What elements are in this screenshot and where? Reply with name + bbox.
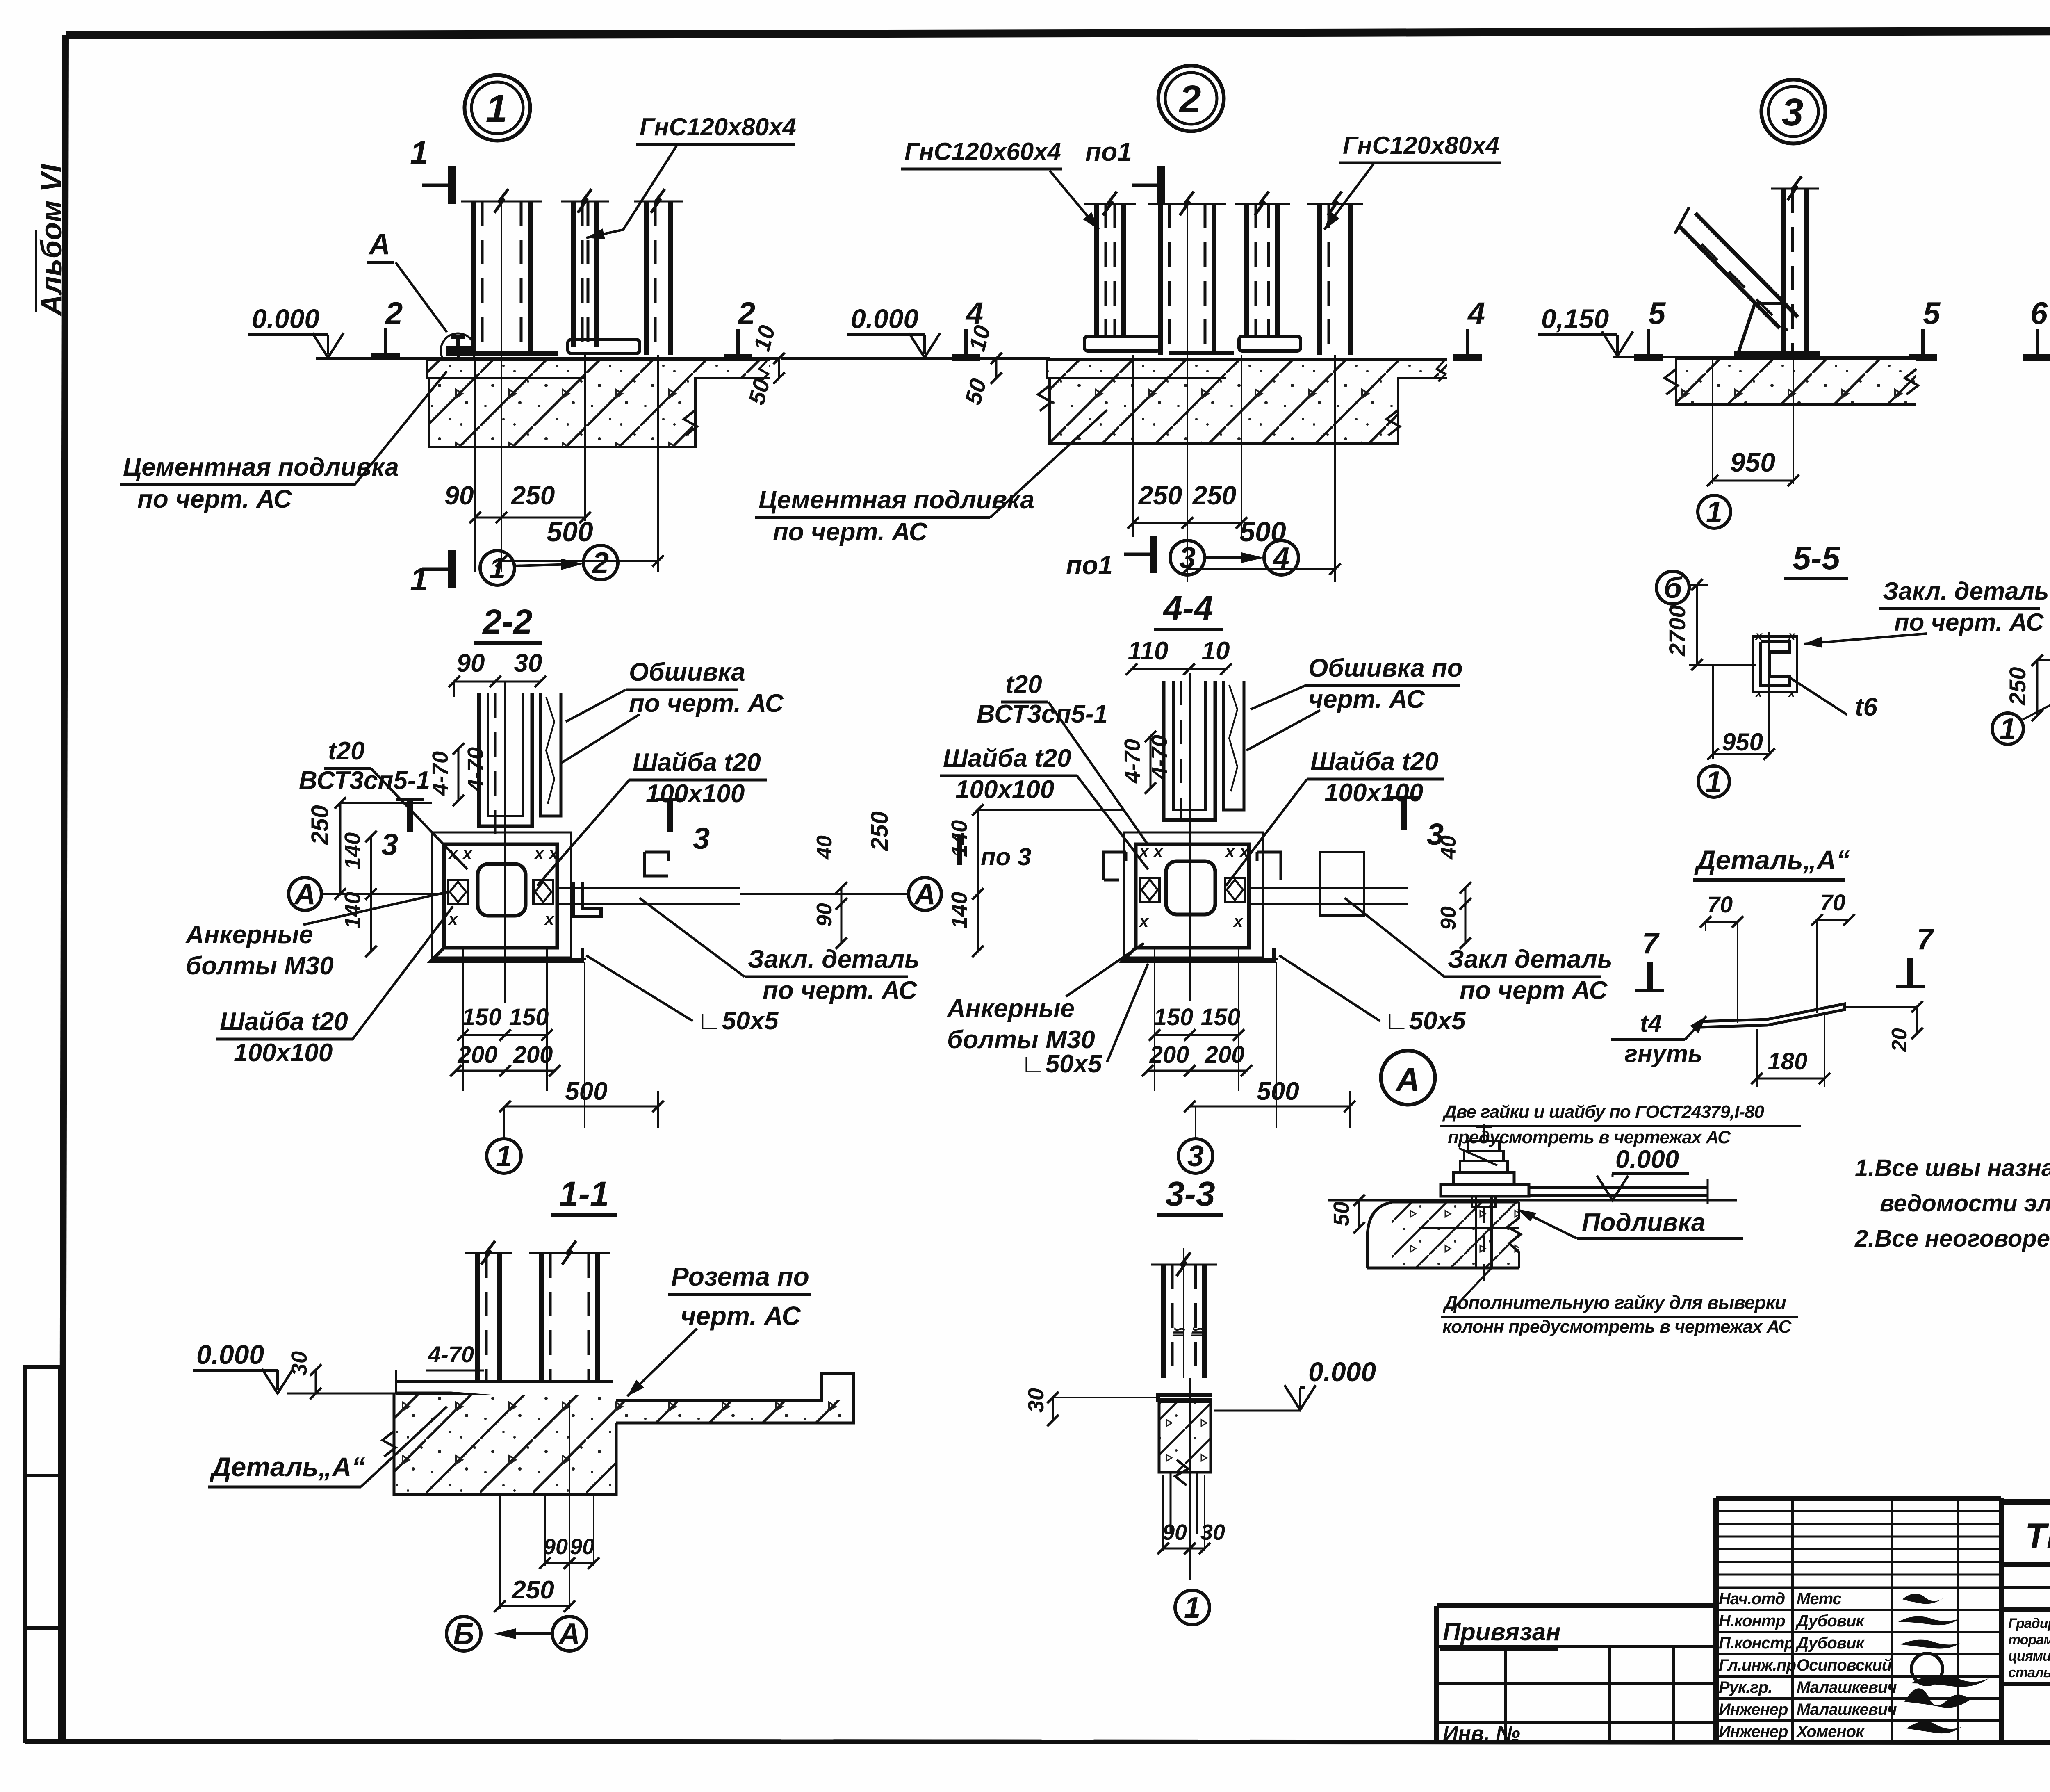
svg-text:x: x — [448, 845, 458, 863]
svg-text:Осиповский: Осиповский — [1797, 1656, 1892, 1674]
svg-text:x: x — [1233, 912, 1244, 930]
svg-text:Деталь„А“: Деталь„А“ — [1694, 845, 1850, 875]
svg-text:110: 110 — [1128, 637, 1168, 665]
2-2 column stub channel — [479, 693, 532, 826]
svg-text:x: x — [1153, 843, 1164, 861]
svg-text:болты М30: болты М30 — [186, 952, 334, 980]
svg-text:x: x — [1139, 912, 1149, 930]
svg-text:250: 250 — [866, 811, 893, 851]
svg-text:Н.контр: Н.контр — [1719, 1612, 1785, 1630]
5-5 embedded square — [1753, 636, 1797, 692]
ground line bolt detail — [1328, 1199, 1737, 1202]
svg-text:180: 180 — [1768, 1048, 1808, 1075]
1-1 zigzag on foundation left — [383, 1431, 396, 1457]
svg-text:Розета по: Розета по — [671, 1262, 809, 1291]
svg-text:стальным каркасом: стальным каркасом — [2008, 1665, 2050, 1680]
svg-text:Закл. деталь: Закл. деталь — [1883, 577, 2049, 605]
svg-text:3-3: 3-3 — [1165, 1174, 1215, 1213]
grid marks 3 4 node 2 — [1170, 540, 1205, 575]
svg-text:4-70: 4-70 — [1147, 735, 1172, 780]
svg-text:t6: t6 — [1855, 693, 1878, 721]
svg-text:x: x — [1139, 843, 1149, 861]
svg-text:70: 70 — [1820, 889, 1845, 915]
svg-text:4: 4 — [1272, 542, 1289, 575]
node 2 detail group — [743, 66, 1501, 582]
grid mark 1 3-3 — [1175, 1590, 1209, 1625]
node 2 base plates — [1084, 336, 1160, 351]
svg-text:90: 90 — [457, 649, 485, 677]
svg-text:ТП 901-6 - 93 с.86: ТП 901-6 - 93 с.86 — [2025, 1516, 2050, 1556]
svg-text:по черт. АС: по черт. АС — [629, 689, 784, 718]
svg-text:предусмотреть в чертежах АС: предусмотреть в чертежах АС — [1448, 1127, 1731, 1147]
4-4 wing plates bottom — [1122, 948, 1274, 962]
plate strip right of bolt — [1529, 1186, 1708, 1189]
grid mark 3 below 4-4 — [1178, 1139, 1213, 1173]
svg-text:4-70: 4-70 — [428, 1341, 474, 1367]
3-3 small plate — [1156, 1393, 1212, 1397]
svg-text:3: 3 — [1187, 1140, 1204, 1173]
svg-text:1: 1 — [410, 561, 428, 597]
svg-text:по черт АС: по черт АС — [1460, 976, 1608, 1005]
svg-text:200: 200 — [1205, 1042, 1245, 1068]
svg-text:5: 5 — [1648, 296, 1666, 331]
svg-text:Обшивка: Обшивка — [629, 658, 745, 686]
2-2 c-clip top right — [645, 852, 668, 876]
svg-text:торами 2ВГ 70 капельная с сек-: торами 2ВГ 70 капельная с сек- — [2008, 1632, 2050, 1648]
svg-text:7: 7 — [1917, 923, 1934, 956]
4-4 bottom dims — [1154, 948, 1155, 1091]
svg-text:по черт. АС: по черт. АС — [763, 976, 918, 1005]
svg-text:20: 20 — [1888, 1028, 1911, 1052]
svg-text:1: 1 — [1184, 1591, 1200, 1624]
node 2 ground line — [781, 357, 1050, 360]
svg-text:Две гайки и шайбу по ГОСТ24379: Две гайки и шайбу по ГОСТ24379,I-80 — [1442, 1102, 1765, 1122]
svg-text:0.000: 0.000 — [1615, 1145, 1679, 1174]
svg-text:∟50х5: ∟50х5 — [697, 1007, 779, 1035]
svg-text:Дубовик: Дубовик — [1795, 1612, 1865, 1630]
svg-text:200: 200 — [513, 1042, 553, 1068]
svg-text:≌: ≌ — [1171, 1323, 1185, 1341]
svg-text:∟50х5: ∟50х5 — [1384, 1007, 1466, 1035]
svg-text:2-2: 2-2 — [482, 602, 532, 641]
svg-text:Подливка: Подливка — [1582, 1208, 1705, 1237]
svg-text:Цементная подливка: Цементная подливка — [758, 486, 1034, 514]
svg-text:500: 500 — [547, 516, 593, 547]
dim 950 5-5 — [1712, 665, 1714, 759]
2-2 base plate outline dashed — [432, 832, 571, 958]
svg-text:А: А — [913, 878, 936, 911]
svg-text:150: 150 — [509, 1004, 549, 1031]
svg-text:6: 6 — [2030, 296, 2048, 331]
svg-text:Шайба t20: Шайба t20 — [633, 748, 761, 777]
grid marks B A 1-1 — [446, 1616, 481, 1651]
detail A group — [1611, 889, 1934, 1087]
svg-text:100х100: 100х100 — [1324, 779, 1423, 807]
2-2 tube section — [478, 864, 526, 916]
svg-text:2: 2 — [592, 547, 609, 579]
axis A left 2-2 — [289, 878, 321, 910]
node 3 column — [1781, 189, 1786, 353]
grid mark 6 5-5 — [1656, 571, 1689, 604]
svg-text:x: x — [1239, 843, 1250, 861]
svg-text:ГнС120х60х4: ГнС120х60х4 — [904, 138, 1061, 165]
svg-text:90: 90 — [1162, 1520, 1187, 1545]
svg-text:250: 250 — [2004, 667, 2030, 706]
svg-text:по1: по1 — [1085, 137, 1132, 166]
svg-text:по черт. АС: по черт. АС — [1894, 609, 2044, 636]
svg-text:А: А — [294, 878, 316, 911]
4-4 column stub channel — [1164, 681, 1215, 820]
svg-text:x: x — [534, 845, 544, 863]
svg-text:Малашкевич: Малашкевич — [1797, 1701, 1897, 1719]
node 3 bubble — [1761, 80, 1825, 144]
svg-text:1: 1 — [489, 552, 506, 585]
svg-text:0.000: 0.000 — [252, 303, 319, 334]
privyazan box — [1437, 1603, 1716, 1608]
svg-text:90: 90 — [444, 481, 474, 510]
svg-text:1: 1 — [410, 135, 428, 171]
grid mark 1 node 3 — [1698, 495, 1731, 528]
3-3 concrete pier — [1159, 1402, 1211, 1472]
svg-text:0.000: 0.000 — [851, 303, 918, 334]
node 1 columns — [471, 201, 476, 355]
svg-text:Альбом VI: Альбом VI — [35, 164, 68, 317]
signature scribbles — [1902, 1594, 1943, 1604]
svg-text:Шайба t20: Шайба t20 — [943, 744, 1071, 773]
svg-text:черт. АС: черт. АС — [681, 1301, 801, 1331]
svg-text:250: 250 — [511, 481, 555, 510]
node 1 bubble — [465, 75, 530, 141]
svg-text:40: 40 — [813, 835, 836, 860]
svg-text:950: 950 — [1730, 447, 1775, 477]
1-1 dim 250 — [499, 1494, 501, 1609]
2-2 siding channel right — [540, 693, 561, 816]
svg-text:140: 140 — [947, 892, 972, 929]
detail A bolt group — [1328, 1051, 1801, 1337]
2-2 embedded channel right — [573, 882, 601, 917]
svg-text:500: 500 — [1257, 1077, 1299, 1106]
1-1 big foundation — [394, 1395, 616, 1494]
svg-text:7: 7 — [1642, 927, 1660, 960]
svg-text:Цементная подливка: Цементная подливка — [123, 453, 399, 481]
svg-text:ВСТ3сп5-1: ВСТ3сп5-1 — [977, 700, 1108, 728]
svg-text:б: б — [1664, 572, 1683, 604]
svg-text:t20: t20 — [328, 737, 365, 765]
svg-text:4: 4 — [1467, 296, 1485, 331]
axis A right 2-2 — [909, 878, 941, 910]
3-3 dims 90 30 — [1162, 1475, 1164, 1551]
svg-text:Нач.отд: Нач.отд — [1719, 1590, 1785, 1608]
node 1 dim extension lines — [474, 358, 476, 572]
svg-text:Деталь„А“: Деталь„А“ — [210, 1452, 365, 1482]
node 3 inclined brace — [1680, 227, 1780, 328]
svg-text:по черт. АС: по черт. АС — [137, 485, 292, 513]
svg-text:1: 1 — [496, 1140, 512, 1173]
svg-text:1: 1 — [1706, 496, 1722, 529]
4-4 base plate outline dashed — [1124, 832, 1263, 958]
svg-text:1: 1 — [1706, 766, 1722, 798]
bolt concrete — [1392, 1202, 1519, 1268]
section 5-5 group — [1656, 540, 2049, 798]
section 4-4 group — [940, 589, 1613, 1215]
svg-text:Закл. деталь: Закл. деталь — [748, 945, 920, 974]
svg-text:Инв. №: Инв. № — [1443, 1722, 1520, 1746]
bolt stack — [1483, 1124, 1485, 1141]
node 2 dim extension lines — [1132, 355, 1134, 537]
4-4 base plate — [1136, 844, 1249, 948]
svg-text:90: 90 — [570, 1534, 594, 1559]
node 2 zigzag breaks — [1038, 385, 1051, 411]
svg-text:А: А — [1395, 1061, 1420, 1098]
svg-text:ведомости элементов, остальные: ведомости элементов, остальные kf4мм. — [1880, 1190, 2050, 1217]
svg-text:100х100: 100х100 — [234, 1039, 333, 1067]
svg-text:Инженер: Инженер — [1719, 1701, 1788, 1719]
svg-text:0.000: 0.000 — [1308, 1357, 1376, 1387]
section 6-6 group — [1992, 536, 2050, 822]
grid marks 1 2 node 1 — [480, 551, 515, 585]
grid mark 1 below 2-2 — [487, 1139, 521, 1173]
node 3 ground line — [1613, 356, 1916, 358]
bolt shank in concrete — [1475, 1196, 1477, 1268]
svg-text:140: 140 — [340, 892, 365, 929]
washer plate — [1441, 1185, 1529, 1196]
svg-text:30: 30 — [287, 1351, 312, 1376]
svg-text:250: 250 — [1192, 481, 1237, 510]
svg-text:А: А — [558, 1618, 580, 1651]
node 1 zigzag break — [684, 410, 697, 435]
node 1 left anchor washer — [448, 347, 475, 354]
svg-text:1-1: 1-1 — [559, 1174, 609, 1213]
svg-text:3: 3 — [381, 828, 398, 862]
node 2 bubble — [1158, 66, 1224, 131]
2-2 bottom dims — [462, 948, 464, 1091]
svg-text:4-4: 4-4 — [1162, 589, 1213, 627]
node 1 ground line — [316, 357, 779, 360]
svg-text:Анкерные: Анкерные — [946, 994, 1075, 1023]
svg-text:1: 1 — [2000, 713, 2016, 746]
section 1-1 group — [193, 1241, 854, 1651]
svg-text:Инженер: Инженер — [1719, 1723, 1788, 1741]
svg-text:30: 30 — [514, 649, 542, 677]
svg-text:гнуть: гнуть — [1624, 1040, 1703, 1067]
node 1 base plates — [568, 340, 640, 353]
section 2-2 group — [185, 602, 941, 1215]
svg-text:x: x — [1755, 629, 1763, 643]
title block signature rows — [1716, 1587, 2001, 1589]
svg-text:Малашкевич: Малашкевич — [1797, 1678, 1897, 1696]
svg-text:3: 3 — [1782, 91, 1804, 134]
svg-text:x: x — [1225, 843, 1235, 861]
svg-text:1: 1 — [486, 87, 508, 130]
svg-text:Хоменок: Хоменок — [1796, 1723, 1865, 1741]
1-1 columns — [475, 1253, 480, 1382]
svg-text:А: А — [368, 228, 390, 261]
svg-text:3: 3 — [693, 821, 710, 855]
svg-text:200: 200 — [458, 1042, 498, 1068]
4-4 siding channel right — [1223, 681, 1244, 810]
node 3 concrete — [1676, 358, 1916, 404]
svg-text:2: 2 — [1179, 78, 1201, 121]
svg-text:П.констр: П.констр — [1719, 1634, 1794, 1652]
svg-text:Метс: Метс — [1797, 1590, 1842, 1608]
4-4 anchor washers — [1140, 878, 1159, 902]
svg-text:Анкерные: Анкерные — [185, 921, 313, 949]
node 3 base line — [1734, 351, 1820, 356]
svg-text:10: 10 — [1202, 637, 1230, 665]
svg-text:Шайба t20: Шайба t20 — [1310, 748, 1439, 776]
svg-text:100х100: 100х100 — [646, 780, 745, 808]
svg-text:Закл деталь: Закл деталь — [1448, 945, 1613, 974]
svg-text:Рук.гр.: Рук.гр. — [1719, 1678, 1772, 1696]
title block right section — [2001, 1499, 2050, 1505]
svg-text:t20: t20 — [1005, 670, 1042, 699]
title block group — [1437, 1498, 2050, 1746]
svg-text:100х100: 100х100 — [955, 775, 1054, 804]
svg-text:50: 50 — [1329, 1202, 1354, 1226]
svg-text:40: 40 — [1437, 835, 1460, 860]
svg-text:70: 70 — [1707, 891, 1733, 917]
node 1 detail group — [120, 75, 796, 597]
svg-text:Дубовик: Дубовик — [1795, 1634, 1865, 1652]
svg-text:250: 250 — [307, 805, 333, 845]
svg-text:90: 90 — [1437, 906, 1460, 930]
svg-text:ГнС120х80х4: ГнС120х80х4 — [1343, 132, 1499, 159]
svg-text:Шайба t20: Шайба t20 — [220, 1008, 348, 1036]
svg-text:250: 250 — [511, 1576, 554, 1604]
svg-text:Гл.инж.пр: Гл.инж.пр — [1719, 1656, 1796, 1674]
1-1 floor slab right — [616, 1400, 854, 1423]
2-2 anchor washers — [448, 880, 468, 904]
svg-text:140: 140 — [947, 820, 972, 857]
detail A bubble — [1381, 1051, 1435, 1105]
title block outer borders — [1716, 1496, 2001, 1501]
svg-text:≌: ≌ — [1189, 1323, 1204, 1341]
svg-text:0.000: 0.000 — [196, 1339, 264, 1370]
svg-text:30: 30 — [1024, 1388, 1048, 1413]
4-4 tube section — [1166, 861, 1215, 914]
svg-text:x: x — [1788, 686, 1796, 700]
svg-text:x: x — [462, 845, 473, 863]
svg-text:по1: по1 — [1066, 550, 1113, 580]
svg-text:∟50х5: ∟50х5 — [1020, 1050, 1102, 1078]
svg-text:500: 500 — [565, 1077, 607, 1106]
svg-text:ГнС120х80х4: ГнС120х80х4 — [640, 113, 796, 141]
svg-text:x: x — [548, 845, 559, 863]
svg-text:0,150: 0,150 — [1541, 303, 1609, 334]
svg-text:90: 90 — [813, 903, 836, 927]
svg-text:2: 2 — [385, 296, 403, 331]
svg-text:2700: 2700 — [1664, 605, 1690, 657]
node 3 dim 950 — [1712, 357, 1713, 484]
svg-text:140: 140 — [340, 832, 365, 869]
svg-text:3: 3 — [1179, 542, 1196, 575]
node 2 concrete foundation — [1047, 360, 1447, 378]
grid mark 1 6-6 — [1992, 713, 2023, 744]
title block column lines — [1791, 1498, 1794, 1743]
svg-text:4-70: 4-70 — [428, 751, 453, 796]
left margin strip box — [25, 1367, 60, 1741]
svg-text:150: 150 — [462, 1004, 502, 1031]
3-3 column — [1161, 1265, 1166, 1378]
1-1 dims 90 90 — [544, 1494, 546, 1566]
svg-text:x: x — [1788, 629, 1796, 643]
svg-text:ВСТ3сп5-1: ВСТ3сп5-1 — [299, 766, 430, 795]
svg-text:250: 250 — [1138, 481, 1182, 510]
svg-text:200: 200 — [1149, 1042, 1189, 1068]
svg-text:Привязан: Привязан — [1443, 1618, 1560, 1646]
svg-text:150: 150 — [1154, 1004, 1194, 1031]
svg-text:1.Все швы назначать по усилиям: 1.Все швы назначать по усилиям, указанны… — [1855, 1155, 2050, 1181]
svg-text:Обшивка по: Обшивка по — [1308, 654, 1463, 682]
svg-text:2: 2 — [737, 296, 755, 331]
svg-text:Дополнительную гайку для вывер: Дополнительную гайку для выверки — [1442, 1292, 1786, 1313]
4-4 embedded channel right — [1320, 852, 1364, 916]
svg-text:циями площадью 192кв.м. со: циями площадью 192кв.м. со — [2008, 1648, 2050, 1664]
svg-text:черт. АС: черт. АС — [1308, 685, 1425, 714]
2-2 wing plate bottom — [430, 948, 582, 962]
3-3 bolt lines below — [1170, 1472, 1172, 1534]
4-4 c-clips left and right of plate — [1104, 852, 1126, 880]
svg-text:5-5: 5-5 — [1793, 540, 1840, 576]
general notes text — [1854, 1155, 2050, 1252]
svg-text:5: 5 — [1923, 296, 1941, 331]
svg-text:x: x — [544, 910, 555, 928]
svg-text:30: 30 — [1200, 1520, 1225, 1545]
grid mark 1 5-5 — [1698, 766, 1729, 797]
svg-text:Б: Б — [453, 1618, 474, 1651]
svg-text:t4: t4 — [1640, 1010, 1662, 1037]
svg-text:150: 150 — [1201, 1004, 1241, 1031]
1-1 rosette plate — [396, 1380, 613, 1383]
svg-text:Градирня 3 х секционная с вент: Градирня 3 х секционная с вентиля- — [2008, 1616, 2050, 1631]
svg-text:по черт. АС: по черт. АС — [773, 518, 928, 546]
node 2 columns — [1094, 204, 1099, 336]
node 3 gusset — [1738, 303, 1783, 353]
node 4 detail group — [2023, 81, 2050, 529]
svg-text:90: 90 — [543, 1534, 568, 1559]
svg-text:2.Все неоговоренные фасонки t: 2.Все неоговоренные фасонки t8мм. — [1854, 1225, 2050, 1252]
svg-text:по 3: по 3 — [981, 843, 1031, 871]
svg-text:4-70: 4-70 — [1120, 739, 1145, 784]
2-2 base plate — [444, 844, 557, 948]
svg-text:950: 950 — [1722, 728, 1763, 756]
svg-text:колонн предусмотреть в чертежа: колонн предусмотреть в чертежах АС — [1442, 1317, 1792, 1337]
node 3 detail group — [1538, 80, 1941, 529]
section 3-3 group — [1024, 1248, 1376, 1625]
node 1 concrete foundation — [427, 360, 770, 378]
title block narrow revision rows — [1716, 1510, 2001, 1512]
svg-text:x: x — [1755, 686, 1763, 700]
svg-text:4-70: 4-70 — [463, 747, 488, 792]
detail A bent plate — [1701, 1004, 1845, 1027]
